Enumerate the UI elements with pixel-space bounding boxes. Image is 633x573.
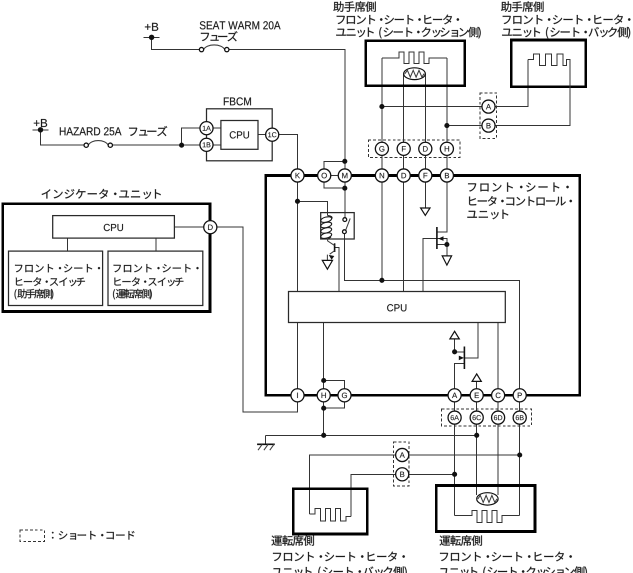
label front seat heater (back) <box>503 15 631 25</box>
fuse HAZARD 25A <box>84 141 112 148</box>
thermistor (passenger cushion) <box>404 68 426 80</box>
pin M <box>338 169 351 182</box>
label CPU (control unit) <box>387 304 406 311</box>
pin 1B <box>200 138 213 151</box>
pin 6A <box>448 411 461 424</box>
label front seat heater (driver back) <box>273 552 405 562</box>
label passenger side (cushion) <box>333 1 375 11</box>
pin B <box>440 169 453 182</box>
wire C to 6D <box>497 402 499 411</box>
pin N <box>375 169 388 182</box>
wire top B to right heater <box>495 60 570 126</box>
pin 6B <box>513 411 526 424</box>
connector pin A (bottom) <box>396 448 409 461</box>
wire indicator CPU to D <box>174 226 203 228</box>
heater switch box (driver) <box>108 251 203 305</box>
wire E stub to triangle <box>476 382 478 389</box>
pin A <box>448 389 461 402</box>
wire +B to HAZARD fuse <box>41 130 85 145</box>
pin 1C <box>266 128 279 141</box>
transistor Q1 bar <box>334 243 336 252</box>
connector pin F <box>397 142 410 155</box>
wire ground line <box>266 434 477 436</box>
junction above H <box>321 378 326 383</box>
wire F column from thermistor <box>403 74 405 143</box>
heater unit box (passenger back) <box>511 40 586 87</box>
pin C <box>492 389 505 402</box>
label fuse (HAZARD) <box>129 126 167 136</box>
connector pin B (top) <box>482 119 495 132</box>
wire Q2 to ground triangle <box>446 245 448 256</box>
junction A / 6B column <box>517 452 522 457</box>
label front seat heater (driver cushion) <box>440 552 572 562</box>
label FBCM <box>224 97 251 105</box>
label unit seat cushion (driver) <box>439 566 587 573</box>
connector pin B (bottom) <box>396 468 409 481</box>
label control unit line3 <box>467 210 508 220</box>
wire branch to 1A <box>182 128 200 145</box>
heater element (passenger back) <box>528 54 570 126</box>
ground triangle Q1 <box>322 260 332 269</box>
wire 1A to FBCM CPU <box>213 127 221 129</box>
wire relay coil feed <box>298 201 328 215</box>
pin D <box>397 169 410 182</box>
label driver side (cushion) <box>440 535 482 545</box>
wire H to ground line <box>323 402 325 435</box>
wire D to F pin <box>424 155 426 169</box>
connector pin D <box>419 142 432 155</box>
label fuse (SEAT WARM) <box>201 31 238 41</box>
wire bracket H-G bottom <box>324 402 345 408</box>
wire G column <box>381 58 383 142</box>
label switch2 line2 <box>114 277 183 286</box>
wire M feed down to relay contact <box>344 161 346 217</box>
pin 6C <box>470 411 483 424</box>
wire HAZARD fuse to 1B <box>112 144 199 146</box>
heater element (driver back) <box>310 508 351 521</box>
label control unit line2 <box>469 196 572 206</box>
wire bottom A to 6B column <box>409 454 520 456</box>
label switch1 line3 <box>15 289 54 300</box>
wire 6D down to thermistor <box>497 424 499 495</box>
pin G <box>338 389 351 402</box>
wire 1C to K <box>279 135 298 169</box>
short-cord dashed box 6A 6C 6D 6B <box>442 409 532 426</box>
wire top B to H column <box>447 125 482 127</box>
relay lower contact <box>343 230 347 234</box>
label +B (HAZARD) <box>34 119 47 127</box>
junction H / ground line <box>321 433 326 438</box>
legend dashed box <box>20 530 44 541</box>
label unit seat cushion side <box>336 27 480 39</box>
FBCM box <box>207 109 273 161</box>
connector pin A (top) <box>482 100 495 113</box>
junction HAZARD feed <box>179 143 184 148</box>
transistor Q3 bar <box>463 347 465 370</box>
wire P to 6B <box>519 402 521 411</box>
junction B / 6A column <box>452 472 457 477</box>
wire G to N <box>381 155 383 169</box>
transistor Q1 emitter lead <box>327 251 334 261</box>
wire CPU to I <box>297 323 299 389</box>
O-M bridge patch <box>328 174 338 178</box>
label SEAT WARM 20A <box>200 21 281 29</box>
pin D (indicator) <box>204 221 217 234</box>
wire indicator CPU to switch 1 <box>67 238 69 251</box>
wire Q1 base to CPU <box>335 247 339 291</box>
transistor Q2 bar <box>436 227 438 249</box>
power triangle Q3 <box>450 331 459 339</box>
pin I <box>291 389 304 402</box>
connector pin G <box>375 142 388 155</box>
wire 6A down to heater <box>454 424 456 515</box>
wire Q2 gate from CPU <box>423 239 447 292</box>
wire B down / Q2 drain <box>437 182 447 232</box>
chassis ground <box>257 435 275 450</box>
relay coil <box>320 216 332 240</box>
transistor Q2 arrow <box>438 236 443 241</box>
short-cord dashed box G F D H <box>368 140 460 157</box>
relay blade <box>346 218 351 230</box>
junction H column / B <box>444 123 449 128</box>
label HAZARD 25A <box>60 127 122 135</box>
pin 1A <box>200 122 213 135</box>
transistor Q1 emitter arrow <box>329 255 335 260</box>
wire 6B down to heater <box>519 424 521 515</box>
transistor Q3 arrow <box>459 356 464 361</box>
wire bottom A to left heater <box>310 455 396 514</box>
wire A to 6A <box>454 402 456 411</box>
indicator CPU box <box>53 216 175 239</box>
wire H column <box>446 58 448 142</box>
wire 1B to FBCM CPU <box>213 144 221 146</box>
indicator unit box <box>3 204 210 312</box>
pin H <box>317 389 330 402</box>
label unit seat back side <box>502 27 630 39</box>
label control unit line1 <box>468 183 569 192</box>
wire bottom B to left heater <box>351 474 396 516</box>
wire SEAT WARM fuse to node above M <box>229 50 345 162</box>
triangle under F <box>421 208 430 215</box>
junction Q3 <box>452 349 457 354</box>
connector pin H <box>440 142 453 155</box>
wire CPU to C <box>497 323 499 389</box>
wire +B to SEAT WARM fuse <box>152 37 200 49</box>
ground triangle Q2 <box>442 256 451 265</box>
wire D down to CPU <box>403 182 405 291</box>
wire 6C down to thermistor <box>476 424 478 495</box>
pin 6D <box>492 411 505 424</box>
junction Q2 source <box>444 242 449 247</box>
control unit CPU box <box>289 292 506 323</box>
pin E <box>470 389 483 402</box>
wire Q3 gate from CPU <box>464 323 478 358</box>
+B terminal (HAZARD) <box>33 127 49 132</box>
heater unit box (driver cushion) <box>436 486 535 532</box>
wire H to B pin <box>446 155 448 169</box>
wire relay contact to N node and P <box>344 234 519 389</box>
wire F stub <box>424 182 426 208</box>
wire bracket H-G top <box>324 381 345 389</box>
power triangle above E <box>472 374 481 382</box>
heater switch box (passenger) <box>9 251 103 305</box>
junction G column / A <box>379 104 384 109</box>
wire top A to G column <box>382 106 482 108</box>
label CPU (FBCM) <box>230 131 249 138</box>
junction below H <box>321 406 326 411</box>
label CPU (indicator) <box>104 224 123 231</box>
wire D column from thermistor <box>424 74 426 143</box>
wire FBCM CPU to 1C <box>258 134 266 136</box>
heater unit box (driver back) <box>293 489 367 534</box>
pin F <box>419 169 432 182</box>
transistor Q1 collector lead <box>328 237 335 245</box>
wire bracket below O-M <box>324 182 345 188</box>
wire top A to right heater <box>495 60 528 107</box>
wire Q3 bottom to A <box>455 363 465 388</box>
wire bottom B to 6A column <box>409 473 455 475</box>
label driver side (back) <box>272 535 314 545</box>
relay box <box>321 213 355 239</box>
junction ground line / 6C column <box>474 433 479 438</box>
junction above M <box>342 159 347 164</box>
junction below M <box>342 186 347 191</box>
label switch2 line3 <box>113 289 152 300</box>
front seat heater control unit box <box>266 176 580 396</box>
heater element (driver cushion) <box>455 511 520 523</box>
wire CPU to H node <box>323 323 325 389</box>
label +B (SEAT WARM) <box>145 23 158 31</box>
short-cord dashed box A B (top) <box>480 93 497 139</box>
label switch1 line1 <box>15 264 100 272</box>
wire indicator CPU to switch 2 <box>155 238 157 251</box>
wire I loop to indicator D <box>217 227 298 412</box>
label indicator unit <box>42 189 161 199</box>
thermistor (driver cushion) <box>477 493 498 505</box>
wire Q2 source link <box>437 244 447 246</box>
fuse SEAT WARM 20A <box>199 45 229 52</box>
label unit seat back (driver) <box>272 566 406 573</box>
junction K / relay coil <box>295 199 300 204</box>
+B terminal (SEAT WARM) <box>144 35 160 40</box>
label front seat heater (cushion) <box>337 15 459 25</box>
label switch1 line2 <box>16 277 85 286</box>
heater unit box (passenger cushion) <box>366 41 465 86</box>
relay upper contact <box>343 218 347 222</box>
pin K <box>291 169 304 182</box>
wire bracket above O-M <box>324 161 345 169</box>
FBCM CPU box <box>221 121 258 150</box>
wire F to D pin <box>403 155 405 169</box>
legend short cord <box>52 531 134 540</box>
junction N / P line <box>379 278 384 283</box>
short-cord dashed box A B (bottom) <box>394 442 410 486</box>
wire E to 6C <box>476 402 478 411</box>
label passenger side (back) <box>501 1 543 11</box>
pin P <box>513 389 526 402</box>
heater element (passenger cushion) <box>382 52 447 64</box>
wire N down <box>381 182 383 280</box>
pin O <box>318 169 331 182</box>
label switch2 line1 <box>114 264 199 272</box>
wire Q3 top link with triangle <box>455 339 465 352</box>
wire K to control CPU <box>297 182 299 291</box>
